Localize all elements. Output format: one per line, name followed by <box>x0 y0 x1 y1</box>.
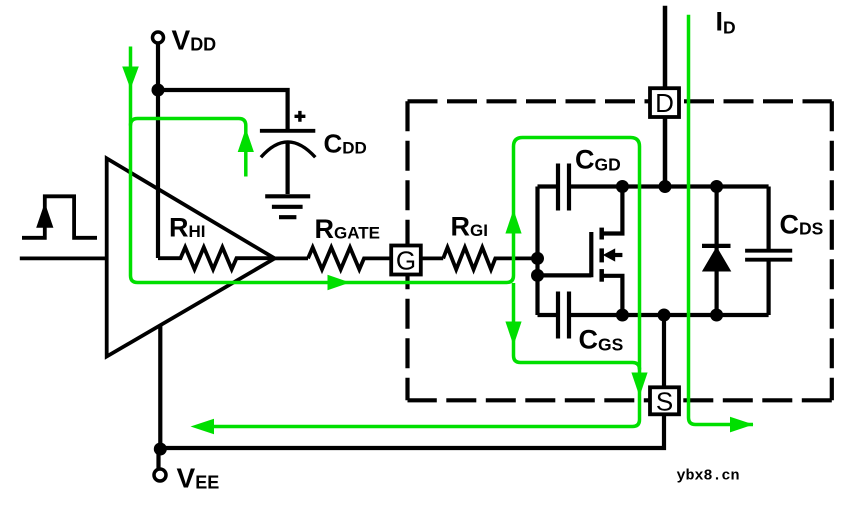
terminal VEE <box>154 469 166 481</box>
svg-text:ybx8.cn: ybx8.cn <box>677 468 740 485</box>
green current path: CDD branch <box>131 119 246 177</box>
wire input <box>20 256 107 260</box>
wire VDD rail vertical <box>156 43 160 258</box>
junction source rail / CGS <box>616 309 629 322</box>
capacitor CDD (polarized) <box>260 111 315 194</box>
svg-text:G: G <box>396 245 416 275</box>
green arrow right (gate drive) <box>328 275 351 291</box>
junction drain rail / D <box>659 180 672 193</box>
capacitor CGD <box>538 164 570 211</box>
junction source rail / S <box>658 309 671 322</box>
node G (gate pin box) <box>391 245 421 275</box>
green current path: gate charge loop <box>131 15 754 427</box>
wire VEE stub <box>156 448 160 469</box>
wire drain rail <box>571 184 769 188</box>
resistor RGI <box>443 247 537 269</box>
junction gate lower node <box>531 269 544 282</box>
capacitor CDS <box>745 187 792 316</box>
resistor RGATE <box>308 247 391 269</box>
terminal VDD <box>153 32 164 43</box>
junction gate node <box>531 252 544 265</box>
svg-text:D: D <box>655 88 674 118</box>
wire source terminal <box>159 315 665 448</box>
ground <box>265 196 310 217</box>
green arrow left (return to VEE) <box>191 419 215 435</box>
transistor M1 (N-MOSFET) <box>538 187 623 316</box>
green arrow down (VDD feed) <box>122 67 139 90</box>
junction drain rail / CGD <box>616 180 629 193</box>
wire driver to VEE <box>158 325 162 450</box>
junction source rail / diode <box>710 309 723 322</box>
op-amp driver U1 <box>107 158 275 356</box>
wire driver output to RGATE <box>275 256 308 260</box>
capacitor CGS <box>538 292 570 339</box>
input pulse arrow <box>36 203 53 228</box>
wire VDD to CDD <box>158 90 288 130</box>
node junction VDD/CDD <box>152 84 165 97</box>
svg-text:S: S <box>656 386 673 416</box>
node junction VEE <box>154 443 167 456</box>
junction drain rail / diode <box>710 180 723 193</box>
green arrow up (into CGD) <box>505 210 521 234</box>
wire gate branch vertical <box>535 187 539 316</box>
wire drain terminal ID <box>663 6 668 187</box>
green current path: drain current ID <box>689 15 754 425</box>
input pulse symbol <box>22 196 97 238</box>
node D (drain pin box) <box>650 88 679 118</box>
wire G box to RGI <box>421 256 443 260</box>
wire source rail <box>571 313 769 317</box>
green arrow down (to S) <box>631 373 647 397</box>
resistor RHI <box>158 247 275 269</box>
dashed MOSFET model boundary box <box>408 101 832 400</box>
diode D1 (body diode) <box>714 187 718 316</box>
green arrow right (ID out) <box>730 417 754 433</box>
green arrow down (into CGS) <box>505 322 521 346</box>
node S (source pin box) <box>650 386 679 416</box>
green current path: CGS branch <box>514 283 640 370</box>
transistor M1 body arrow <box>603 248 615 261</box>
green arrow up (CDD discharge) <box>238 128 254 152</box>
